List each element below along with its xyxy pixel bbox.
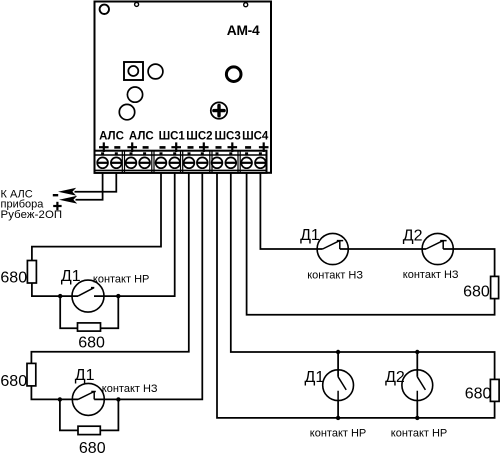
terminal strip body [95,151,267,173]
detector Д1 ШС3 branch wire top [337,352,339,377]
resistor 680 terminator ШС4 [491,276,499,298]
wire ШС4 plus: terminal 12 down, right to Д1 [260,173,322,249]
detector Д1 ШС4 circle [317,233,348,264]
polarity - terminal 9 [216,146,222,149]
svg-text:680: 680 [0,269,27,286]
svg-text:контакт НЗ: контакт НЗ [403,269,459,281]
terminal screw 3 [126,152,137,168]
detector Д2 ШС3 branch wire top [416,352,418,377]
svg-text:АЛС: АЛС [99,130,124,142]
wire ШС1 plus: right contact to terminal 6 [94,173,175,296]
screw head [211,102,227,118]
svg-text:контакт НЗ: контакт НЗ [102,383,158,395]
polarity + terminal 1 [99,142,109,152]
svg-text:Д1: Д1 [61,268,81,285]
switch arm НЗ [78,392,96,400]
svg-text:контакт НЗ: контакт НЗ [307,269,363,281]
switch arm НР vertical [417,377,425,401]
terminal screw 11 [241,152,252,168]
terminal screw 5 [156,152,167,168]
polarity - terminal 4 [143,146,149,149]
svg-text:АЛС: АЛС [129,130,154,142]
mounting hole top-left [100,5,109,14]
detector Д2 ШС3 circle [402,370,433,401]
label minus [53,194,58,196]
node dot left [58,397,62,401]
node dot Д1 bottom [336,416,340,420]
wire between Д1 and Д2 [340,248,426,250]
indicator circle middle [127,87,142,102]
polarity - terminal 7 [188,146,194,149]
wire ШС2 plus: right contact to terminal 8 [94,173,202,400]
terminal screw 1 [97,152,108,168]
svg-text:контакт НР: контакт НР [93,274,149,286]
detector Д1 ШС1 circle [72,280,104,312]
node dot left [58,294,62,298]
resistor 680 series ШС1 [27,261,36,284]
indicator circle right of square [148,64,163,79]
wire ШС3 minus: resistor down, left rail to terminal 9 [217,173,495,418]
resistor 680 series ШС2 [27,363,36,386]
node dot Д2 top [415,350,419,354]
polarity + terminal 10 [228,142,238,152]
detector Д1 ШС3 circle [323,370,354,401]
terminal screw 8 [197,152,208,168]
wire resistor to main line [31,386,78,400]
buzzer ring [226,67,241,82]
svg-text:контакт НР: контакт НР [391,427,447,439]
svg-text:680: 680 [0,373,27,390]
detector Д1 ШС3 branch wire bottom [337,401,339,418]
node dot Д2 bottom [415,416,419,420]
polarity - terminal 5 [160,146,166,149]
svg-text:ШС4: ШС4 [242,130,269,142]
detector Д1 ШС2 circle [72,383,104,415]
polarity - terminal 11 [245,146,251,149]
svg-text:Д2: Д2 [403,227,423,244]
svg-text:680: 680 [78,335,105,352]
polarity + terminal 12 [259,142,269,152]
terminal screw 6 [169,152,180,168]
terminal strip inner top line [95,154,267,156]
polarity + terminal 8 [199,142,209,152]
polarity + terminal 6 [171,142,181,152]
svg-text:АМ-4: АМ-4 [227,23,260,38]
svg-text:680: 680 [463,283,490,300]
terminal screw 2 [111,152,122,168]
wire АЛС minus from terminal 2 [75,173,117,192]
strip divider 1 [121,151,123,173]
wire Д2 to resistor [443,249,494,276]
resistor 680 bypass ШС2 [78,426,100,434]
svg-text:ШС2: ШС2 [186,130,212,142]
wire АЛС plus from terminal 1 [76,173,103,200]
indicator circle lower-left [119,104,134,119]
svg-text:Д1: Д1 [305,369,325,386]
wire bypass left [60,296,77,328]
svg-text:680: 680 [465,386,492,403]
wire ШС2 minus: terminal 7 down, left, to resistor top [31,173,188,364]
wire ШС3 plus: terminal 10 down, right rail to resistor [231,173,495,380]
detector Д2 ШС3 branch wire bottom [416,401,418,418]
svg-text:Д1: Д1 [300,227,320,244]
svg-text:680: 680 [79,440,106,453]
switch arm НР [78,288,94,297]
arrow АЛС minus [58,188,76,196]
detector Д2 ШС4 circle [422,233,453,264]
hole dot left [135,2,139,6]
LED square [124,62,143,80]
switch arm НЗ [323,241,344,249]
terminal screw 7 [184,152,195,168]
terminal screw 9 [212,152,223,168]
terminal strip inner bottom line [95,169,267,171]
wire bypass left [60,399,78,430]
hole dot right [244,3,248,7]
node dot right [116,397,120,401]
polarity + terminal 3 [127,142,137,152]
strip divider 2 [151,151,153,173]
wire ШС1 minus: terminal 5 down, left, to resistor top [32,173,161,261]
wire bypass right [101,296,119,328]
wire bypass right [100,399,118,430]
label plus [53,202,61,210]
switch arm НЗ [426,241,447,249]
wire ШС4 minus: resistor down, left to terminal 11 [247,173,495,315]
node dot Д1 top [336,350,340,354]
svg-text:ШС1: ШС1 [159,130,186,142]
strip divider 3 [180,151,182,173]
resistor 680 terminator ШС3 [490,379,499,401]
arrow АЛС plus [59,196,77,204]
svg-text:ШС3: ШС3 [214,130,240,142]
switch arm НР vertical [338,377,346,401]
terminal screw 10 [225,152,236,168]
svg-text:контакт НР: контакт НР [310,427,366,439]
strip divider 4 [209,151,211,173]
svg-text:Д1: Д1 [75,367,95,384]
module AM-4 outline [95,2,272,173]
terminal screw 12 [255,152,266,168]
strip divider 5 [237,151,239,173]
LED circle inside square [128,66,138,76]
wire resistor to main line [32,283,78,296]
svg-text:Рубеж-2ОП: Рубеж-2ОП [1,209,63,221]
terminal screw 4 [139,152,150,168]
resistor 680 bypass ШС1 [78,323,101,331]
polarity - terminal 2 [114,146,120,149]
svg-text:Д2: Д2 [385,369,405,386]
node dot right [116,294,120,298]
